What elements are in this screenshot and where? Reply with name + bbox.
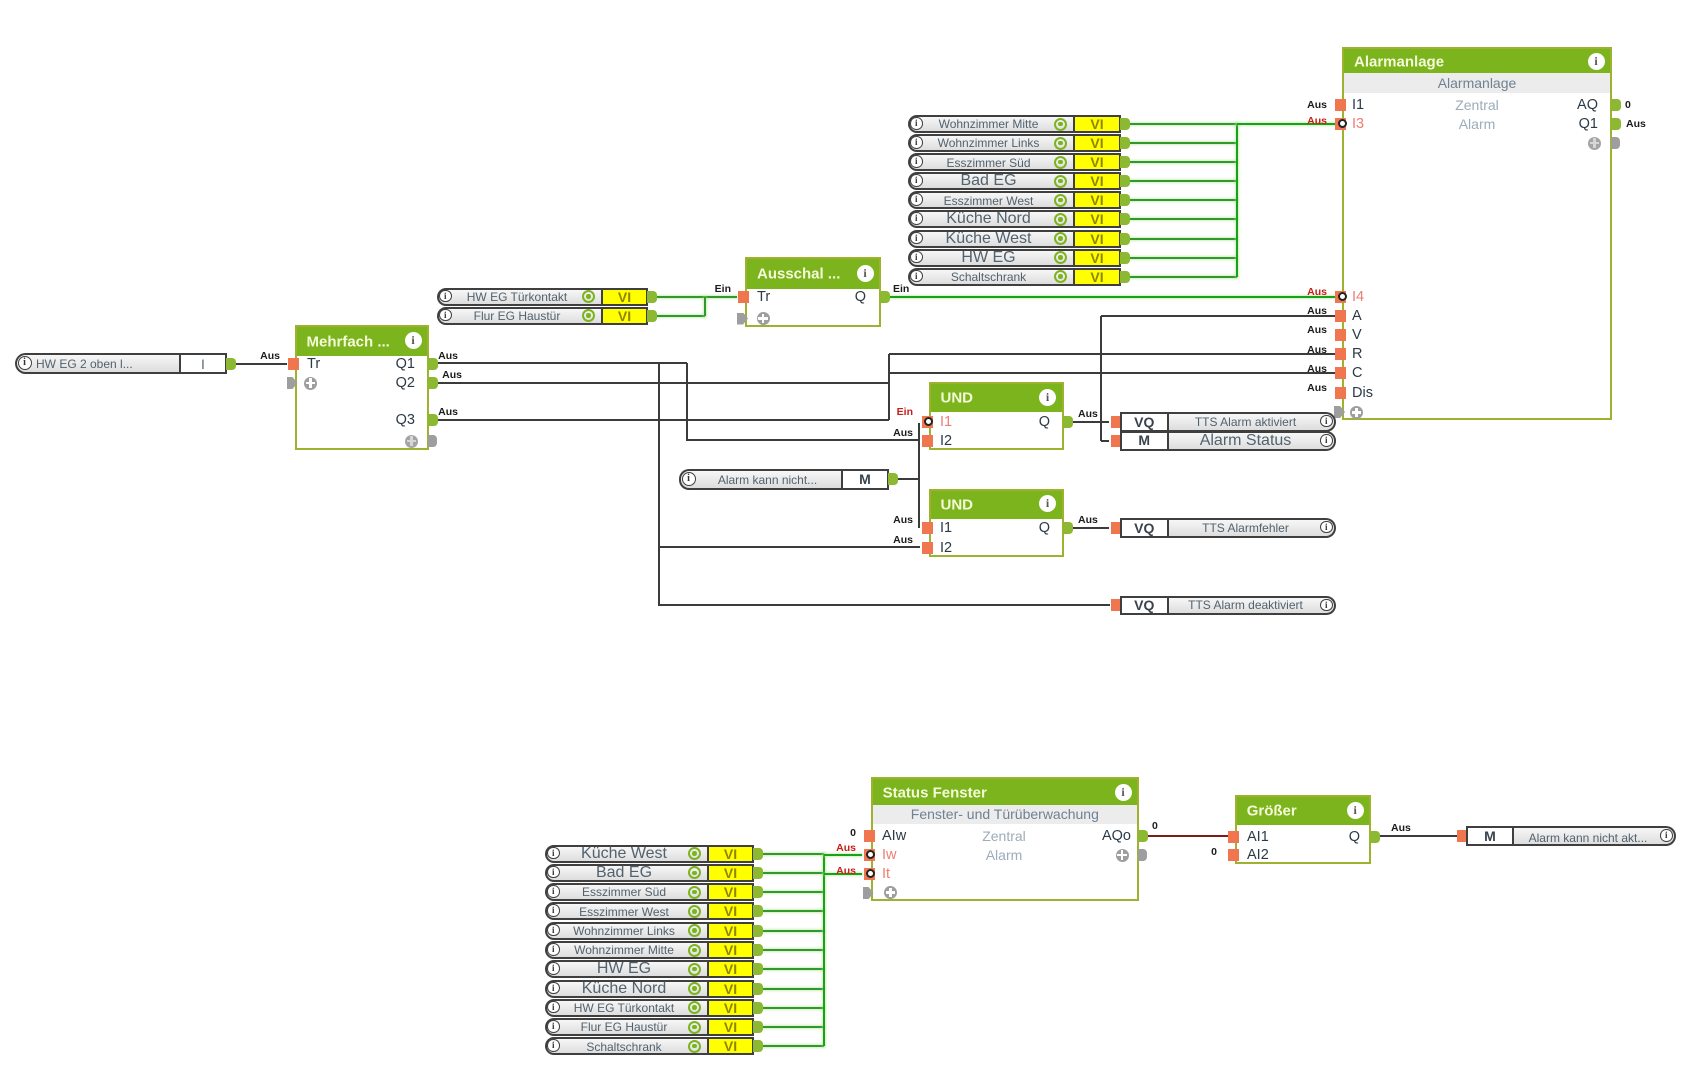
wire VI stub top 3 bbox=[1130, 161, 1237, 163]
input connector I2 bbox=[922, 435, 933, 447]
gray circle Alarmanlage add output bbox=[1588, 137, 1601, 150]
add button Mehrfach add bbox=[304, 377, 317, 390]
label Alarm bbox=[854, 847, 1154, 863]
virtual input virtual input Küche Nord (top) bbox=[908, 210, 1073, 228]
virtual input virtual input Flur EG Haustür (bottom) bbox=[545, 1018, 707, 1036]
value label AQo value bbox=[1152, 820, 1158, 832]
output connector Q3 bbox=[428, 414, 438, 426]
output connector Q1 bbox=[1611, 118, 1621, 130]
pin Q bbox=[1039, 414, 1050, 430]
pin A bbox=[1352, 308, 1362, 324]
output connector Q bbox=[1063, 416, 1073, 428]
pin Q bbox=[1039, 520, 1050, 536]
pin Dis bbox=[1352, 385, 1373, 401]
gray circle Mehrfach add output bbox=[405, 435, 418, 448]
add button Status Fenster add input bbox=[884, 886, 897, 899]
wire VI bus vertical top bbox=[1236, 124, 1238, 277]
add button Status Fenster add output bbox=[1116, 849, 1129, 862]
virtual input virtual input HW EG Türkontakt bbox=[437, 288, 601, 306]
digital input HW EG 2 oben bbox=[15, 353, 179, 374]
virtual input virtual input HW EG Türkontakt (bottom) bbox=[545, 999, 707, 1017]
value label AI2 value bbox=[1211, 846, 1217, 858]
value label AIw value bbox=[850, 827, 856, 839]
block UND 1 bbox=[929, 382, 1064, 450]
value label Ausschalt Q value bbox=[893, 283, 909, 295]
input connector R bbox=[1335, 348, 1346, 360]
wire VI stub bottom 9 bbox=[763, 1007, 824, 1009]
wire VI stub bottom 7 bbox=[763, 968, 824, 970]
pin I1 bbox=[1352, 97, 1364, 113]
wire Ausschalt Q to Alarmanlage I4 bbox=[890, 296, 1337, 298]
block Status Fenster bbox=[871, 777, 1140, 901]
wire Q1 branch down long bbox=[658, 363, 660, 606]
value label C value bbox=[1307, 363, 1327, 375]
output connector Q bbox=[880, 291, 890, 303]
pin Q1 bbox=[396, 356, 415, 372]
value label UND2 I2 value bbox=[893, 534, 913, 546]
add button Alarmanlage add input bbox=[1350, 406, 1363, 419]
wire Mehrfach Q3 horizontal bbox=[436, 419, 889, 421]
pin I1 bbox=[940, 520, 952, 536]
value label Q1 value bbox=[438, 350, 458, 362]
input connector I2 bbox=[922, 542, 933, 554]
pin AQ bbox=[1577, 97, 1598, 113]
pin Q3 bbox=[396, 412, 415, 428]
add button Ausschalt add bbox=[757, 312, 770, 325]
output connector Q bbox=[1370, 831, 1380, 843]
wire VI stub top 1 bbox=[1130, 123, 1237, 125]
input connector Dis bbox=[1335, 387, 1346, 399]
wire Q1 to UND1.I2 bbox=[687, 439, 920, 441]
input connector I4 bbox=[1335, 291, 1346, 303]
merker Alarm Status bbox=[1111, 435, 1122, 447]
value label UND1 I2 value bbox=[893, 427, 913, 439]
label Zentral bbox=[1327, 97, 1627, 113]
virtual input virtual input Esszimmer Süd (top) bbox=[908, 153, 1073, 171]
pin V bbox=[1352, 327, 1362, 343]
wire Merker to UND1.I1 / UND2.I1 vertical bbox=[918, 423, 920, 528]
input connector AIw bbox=[864, 830, 875, 842]
input connector Iw bbox=[864, 849, 875, 861]
wire wire to Alarmanlage A bbox=[1101, 315, 1338, 317]
virtual input virtual input Bad EG (bottom) bbox=[545, 864, 707, 882]
input connector V bbox=[1335, 329, 1346, 341]
value label A value bbox=[1307, 305, 1327, 317]
value label It value bbox=[836, 865, 856, 877]
input connector AI2 bbox=[1228, 849, 1239, 861]
block Alarmanlage bbox=[1342, 47, 1612, 420]
block Groesser bbox=[1235, 795, 1372, 864]
wire VI stub top 9 bbox=[1130, 276, 1237, 278]
block UND 2 bbox=[929, 489, 1064, 557]
output connector Q2 bbox=[428, 377, 438, 389]
wire VI stub top 8 bbox=[1130, 257, 1237, 259]
gray input connector Mehrfach spare bbox=[287, 377, 298, 389]
wire Groesser Q to Merker bbox=[1379, 835, 1457, 837]
wire wire to Alarmanlage C bbox=[889, 372, 1338, 374]
wire VI stub bottom 8 bbox=[763, 988, 824, 990]
virtual input virtual input HW EG (bottom) bbox=[545, 960, 707, 978]
wire bus to Status Fenster It bbox=[824, 873, 862, 875]
block Ausschaltverzoegerung bbox=[745, 257, 881, 327]
pin Iw bbox=[882, 847, 897, 863]
input connector I3 bbox=[1335, 118, 1346, 130]
value label Iw value bbox=[836, 842, 856, 854]
input connector I1 bbox=[922, 416, 933, 428]
wire Merker out stub bbox=[898, 478, 919, 480]
wire VI stub top 7 bbox=[1130, 238, 1237, 240]
virtual input virtual input Flur EG Haustür bbox=[437, 307, 601, 325]
wire Flur EG Haustuer stub bbox=[657, 315, 705, 317]
wire input I to Mehrfach Tr bbox=[236, 363, 287, 365]
virtual input virtual input Bad EG (top) bbox=[908, 172, 1073, 190]
wire Flur EG Haustuer riser bbox=[704, 297, 706, 316]
output connector Q1 bbox=[428, 358, 438, 370]
input connector Tr bbox=[738, 291, 749, 303]
wire VI stub bottom 3 bbox=[763, 891, 824, 893]
virtual input virtual input Wohnzimmer Links (bottom) bbox=[545, 922, 707, 940]
input connector C bbox=[1335, 367, 1346, 379]
virtual input virtual input Küche West (bottom) bbox=[545, 845, 707, 863]
type band Fenster- und Tuerueberwachung bbox=[873, 805, 1138, 824]
value label Q1 value bbox=[1626, 118, 1646, 130]
wire Q2/Q3 vertical riser bbox=[888, 354, 890, 420]
virtual input virtual input Esszimmer Süd (bottom) bbox=[545, 883, 707, 901]
virtual input virtual input Esszimmer West (top) bbox=[908, 191, 1073, 209]
output connector Q bbox=[1063, 522, 1073, 534]
value label AQ value bbox=[1625, 99, 1631, 111]
input connector AI1 bbox=[1228, 831, 1239, 843]
input connector I1 bbox=[922, 522, 933, 534]
merker Alarm kann nicht ... (input) bbox=[679, 469, 841, 490]
pin Q2 bbox=[396, 375, 415, 391]
wire VI stub top 4 bbox=[1130, 180, 1237, 182]
value label UND1 I1 value bbox=[897, 406, 913, 418]
pin I4 bbox=[1352, 289, 1364, 305]
pin Q bbox=[1349, 829, 1360, 845]
value label Dis value bbox=[1307, 382, 1327, 394]
input connector It bbox=[864, 868, 875, 880]
value label V value bbox=[1307, 324, 1327, 336]
merker Alarm kann nicht akt... (output) bbox=[1457, 830, 1468, 842]
wire VI stub bottom 5 bbox=[763, 930, 824, 932]
pin AQo bbox=[1102, 828, 1131, 844]
gray input connector Alarmanlage spare bbox=[1334, 406, 1345, 418]
virtual input virtual input Wohnzimmer Mitte (bottom) bbox=[545, 941, 707, 959]
value label input value bbox=[260, 350, 280, 362]
output connector AQo bbox=[1138, 830, 1148, 842]
wire VI stub bottom 10 bbox=[763, 1026, 824, 1028]
value label UND1 Q value bbox=[1078, 408, 1098, 420]
virtual input virtual input Schaltschrank (top) bbox=[908, 268, 1073, 286]
virtual input virtual input Wohnzimmer Mitte (top) bbox=[908, 115, 1073, 133]
value label Q2 value bbox=[442, 369, 462, 381]
wire bus to Status Fenster Iw bbox=[824, 854, 862, 856]
wire Status Fenster AQo to Groesser AI1 bbox=[1148, 835, 1228, 837]
value label I1 value bbox=[1307, 99, 1327, 111]
input connector Tr bbox=[288, 358, 299, 370]
wire Mehrfach Q2 horizontal bbox=[436, 382, 890, 384]
wire UND1 Q branch vertical bbox=[1100, 316, 1102, 441]
label Zentral bbox=[854, 828, 1154, 844]
type band Alarmanlage bbox=[1344, 73, 1610, 93]
pin C bbox=[1352, 365, 1362, 381]
value label I3 value bbox=[1307, 115, 1327, 127]
wire bus to Alarmanlage I3 bbox=[1237, 123, 1338, 125]
value label UND2 I1 value bbox=[893, 514, 913, 526]
wire VI stub bottom 6 bbox=[763, 949, 824, 951]
virtual input virtual input Küche West (top) bbox=[908, 230, 1073, 248]
wire Q1 to VQ TTS Alarm deaktiviert bbox=[659, 604, 1110, 606]
pin AIw bbox=[882, 828, 906, 844]
wire VI bus vertical bottom bbox=[823, 854, 825, 1047]
pin Tr bbox=[307, 356, 320, 372]
pin I3 bbox=[1352, 116, 1364, 132]
wire Q1 branch down to UND1.I2 bbox=[686, 363, 688, 441]
virtual input virtual input Schaltschrank (bottom) bbox=[545, 1037, 707, 1055]
wire UND1 Q to VQ TTS Alarm aktiviert bbox=[1073, 421, 1109, 423]
pin I2 bbox=[940, 433, 952, 449]
wire UND2 Q to VQ TTS Alarmfehler bbox=[1073, 527, 1109, 529]
pin Q1 bbox=[1579, 116, 1598, 132]
pin It bbox=[882, 866, 890, 882]
virtual output TTS Alarmfehler bbox=[1111, 522, 1122, 534]
value label Groesser Q value bbox=[1391, 822, 1411, 834]
pin I1 bbox=[940, 414, 952, 430]
virtual input virtual input Wohnzimmer Links (top) bbox=[908, 134, 1073, 152]
wire VI stub top 2 bbox=[1130, 142, 1237, 144]
value label R value bbox=[1307, 344, 1327, 356]
wire VI stub bottom 11 bbox=[763, 1045, 824, 1047]
value label UND2 Q value bbox=[1078, 514, 1098, 526]
wire VI stub top 5 bbox=[1130, 199, 1237, 201]
wire VI stub bottom 2 bbox=[763, 872, 824, 874]
virtual output TTS Alarm aktiviert bbox=[1111, 416, 1122, 428]
wire VI stub bottom 1 bbox=[763, 853, 824, 855]
wire HW EG Tuerkontakt to Ausschalt Tr bbox=[657, 296, 737, 298]
value label I4 value bbox=[1307, 286, 1327, 298]
wire Mehrfach Q1 horizontal bbox=[436, 362, 687, 364]
input connector A bbox=[1335, 310, 1346, 322]
virtual input virtual input HW EG (top) bbox=[908, 249, 1073, 267]
wire wire to Merker Alarm Status bbox=[1101, 440, 1109, 442]
virtual output TTS Alarm deaktiviert bbox=[1111, 599, 1122, 611]
value label Q3 value bbox=[438, 406, 458, 418]
gray input connector Status Fenster spare bbox=[863, 887, 874, 899]
pin AI1 bbox=[1247, 829, 1269, 845]
input connector I1 bbox=[1335, 99, 1346, 111]
block Mehrfachklick bbox=[295, 325, 430, 450]
wire VI stub top 6 bbox=[1130, 218, 1237, 220]
wire VI stub bottom 4 bbox=[763, 910, 824, 912]
virtual input virtual input Küche Nord (bottom) bbox=[545, 980, 707, 998]
virtual input virtual input Esszimmer West (bottom) bbox=[545, 902, 707, 920]
wire Q1 to UND2.I2 bbox=[659, 546, 920, 548]
pin Q bbox=[855, 289, 866, 305]
pin Tr bbox=[757, 289, 770, 305]
gray input connector Ausschalt spare bbox=[737, 313, 748, 325]
output connector AQ bbox=[1611, 99, 1621, 111]
value label Tr value bbox=[715, 283, 731, 295]
wire wire to Alarmanlage R bbox=[889, 353, 1338, 355]
pin R bbox=[1352, 346, 1362, 362]
pin I2 bbox=[940, 540, 952, 556]
pin AI2 bbox=[1247, 847, 1269, 863]
label Alarm bbox=[1327, 116, 1627, 132]
